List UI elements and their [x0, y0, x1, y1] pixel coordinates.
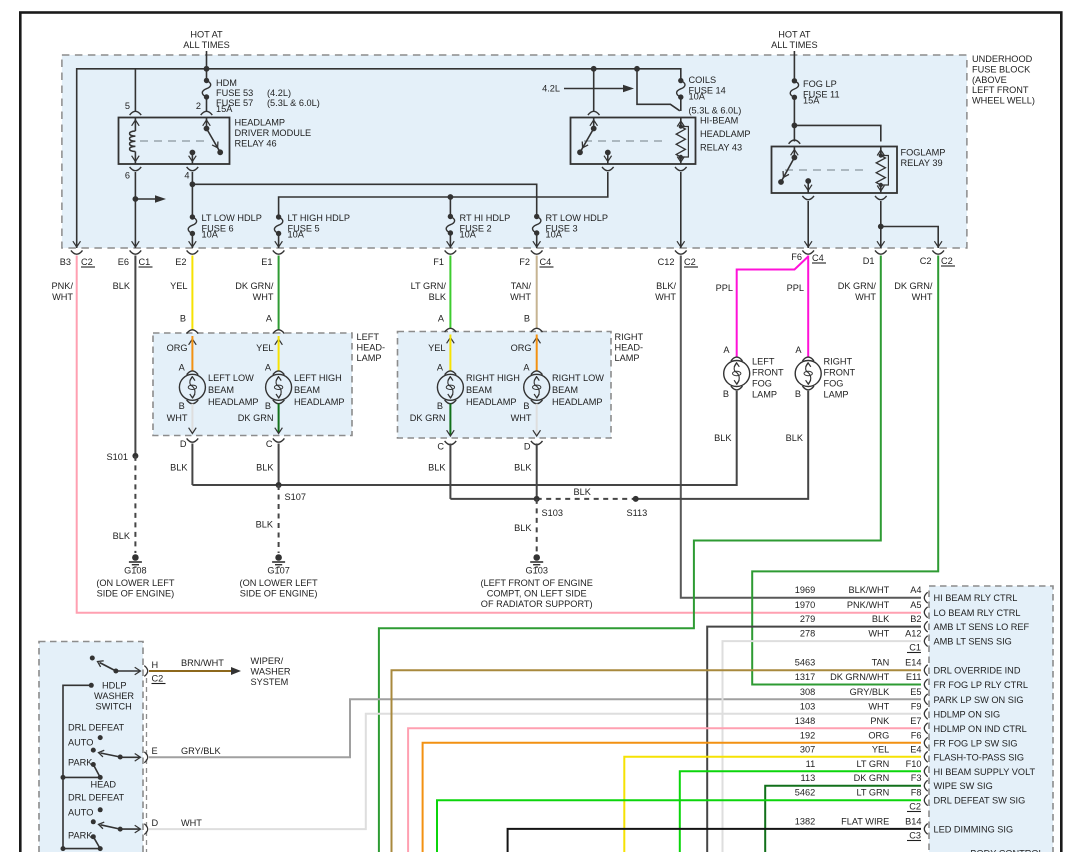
svg-text:PARK: PARK — [68, 831, 93, 841]
svg-text:E: E — [152, 746, 158, 756]
washer switch common rail — [89, 683, 94, 688]
svg-text:1348: 1348 — [795, 716, 815, 726]
svg-text:LT GRN/: LT GRN/ — [411, 281, 447, 291]
svg-text:307: 307 — [800, 744, 815, 754]
svg-text:113: 113 — [801, 773, 816, 783]
svg-text:RELAY 39: RELAY 39 — [901, 158, 943, 168]
svg-text:WHT: WHT — [511, 413, 532, 423]
svg-text:S107: S107 — [285, 492, 306, 502]
splice S107 — [276, 482, 282, 488]
svg-text:HDLP: HDLP — [102, 681, 127, 691]
wire BLK right low beam D to splice S103 — [536, 444, 538, 499]
svg-text:LAMP: LAMP — [824, 390, 849, 400]
relay 46 coil — [134, 118, 136, 132]
wire TAN circuit 5463 from below to BCM DRL OVERRIDE IND — [392, 670, 922, 852]
svg-text:HEAD-: HEAD- — [357, 342, 386, 352]
svg-text:DRL DEFEAT SW SIG: DRL DEFEAT SW SIG — [934, 796, 1026, 806]
svg-text:B: B — [180, 314, 186, 324]
svg-text:ALL TIMES: ALL TIMES — [183, 40, 229, 50]
svg-text:F6: F6 — [791, 252, 802, 262]
svg-text:FRONT: FRONT — [824, 368, 856, 378]
svg-text:HI BEAM RLY CTRL: HI BEAM RLY CTRL — [934, 593, 1018, 603]
svg-text:COILS: COILS — [689, 75, 717, 85]
svg-text:1970: 1970 — [795, 600, 815, 610]
connector into left headlamp B — [187, 330, 199, 334]
svg-text:PNK/: PNK/ — [52, 281, 74, 291]
svg-text:BEAM: BEAM — [208, 385, 234, 395]
svg-text:PPL: PPL — [787, 283, 804, 293]
svg-text:LED DIMMING SIG: LED DIMMING SIG — [934, 824, 1014, 834]
svg-text:F3: F3 — [911, 773, 922, 783]
svg-text:WHT: WHT — [855, 292, 876, 302]
wire fuse 11 to relay 39 — [793, 97, 795, 141]
svg-text:B: B — [723, 389, 729, 399]
svg-text:RELAY 43: RELAY 43 — [700, 143, 742, 153]
svg-text:H: H — [152, 660, 159, 670]
svg-text:1317: 1317 — [795, 672, 815, 682]
svg-text:C: C — [437, 442, 444, 452]
svg-text:BLK: BLK — [514, 523, 532, 533]
wire relay 46 pin 4 low-beam rail — [191, 172, 193, 217]
svg-text:SYSTEM: SYSTEM — [251, 677, 289, 687]
fuse block bottom connector sockets — [71, 250, 83, 254]
svg-text:BLK: BLK — [872, 614, 890, 624]
svg-text:LT GRN: LT GRN — [856, 759, 889, 769]
svg-text:E6: E6 — [118, 257, 129, 267]
wire LT GRN/BLK from F1 to right high beam — [449, 256, 451, 329]
svg-text:4.2L: 4.2L — [542, 84, 560, 94]
fuse LT HIGH HDLP FUSE 5 10A — [274, 217, 282, 234]
svg-text:BLK: BLK — [786, 433, 804, 443]
svg-text:HOT AT: HOT AT — [778, 30, 811, 40]
svg-text:F1: F1 — [433, 257, 444, 267]
svg-text:PARK LP SW ON SIG: PARK LP SW ON SIG — [934, 695, 1024, 705]
svg-text:GRY/BLK: GRY/BLK — [850, 687, 891, 697]
svg-text:HDLMP ON IND CTRL: HDLMP ON IND CTRL — [934, 724, 1027, 734]
svg-text:GRY/BLK: GRY/BLK — [181, 746, 222, 756]
svg-text:LEFT: LEFT — [357, 332, 380, 342]
svg-text:FR FOG LP SW SIG: FR FOG LP SW SIG — [934, 738, 1018, 748]
wire B+ feed into HDM fuse — [206, 51, 208, 81]
svg-text:YEL: YEL — [428, 343, 445, 353]
svg-text:C2: C2 — [909, 802, 921, 812]
svg-text:BODY CONTROL: BODY CONTROL — [970, 849, 1043, 852]
wire BLK ground bus to left fog lamp B — [192, 391, 736, 485]
svg-text:LEFT: LEFT — [752, 357, 775, 367]
relay 39 coil output connector — [875, 196, 887, 200]
right high beam headlamp bulb — [447, 338, 455, 344]
svg-text:5: 5 — [125, 101, 130, 111]
wire BLK from E6 to splice S101 — [134, 256, 136, 456]
wire BLK S101 to ground G108 — [134, 456, 136, 553]
hdlp washer switch blade H — [100, 663, 116, 672]
node junction B+ rail to relay43 switch drop — [591, 66, 597, 72]
svg-text:RIGHT LOW: RIGHT LOW — [552, 373, 604, 383]
svg-text:15A: 15A — [216, 104, 233, 114]
svg-text:RT HI HDLP: RT HI HDLP — [460, 213, 511, 223]
svg-text:308: 308 — [800, 687, 815, 697]
svg-text:F10: F10 — [906, 759, 922, 769]
wire drop to relay 43 switch pin — [593, 69, 595, 111]
svg-text:YEL: YEL — [170, 281, 187, 291]
svg-text:HEADLAMP: HEADLAMP — [700, 129, 751, 139]
switch section 1 blade E — [118, 755, 123, 760]
wire ORG circuit 192 from below to BCM FR FOG LP SW SIG — [423, 743, 921, 852]
svg-text:SIDE OF ENGINE): SIDE OF ENGINE) — [97, 589, 175, 599]
svg-text:DK GRN/: DK GRN/ — [894, 281, 933, 291]
svg-text:C3: C3 — [909, 831, 921, 841]
svg-text:A: A — [438, 314, 445, 324]
svg-text:ORG: ORG — [167, 343, 188, 353]
relay 43 switch — [593, 118, 595, 128]
svg-text:ALL TIMES: ALL TIMES — [771, 40, 817, 50]
svg-text:HI BEAM SUPPLY VOLT: HI BEAM SUPPLY VOLT — [934, 767, 1036, 777]
svg-text:11: 11 — [806, 759, 816, 769]
svg-text:WHT: WHT — [52, 292, 73, 302]
underhood fuse block — [62, 55, 967, 248]
connector into right headlamp B — [531, 328, 543, 332]
wire DK GRN/WHT from D1 down off page — [379, 256, 881, 852]
svg-text:(ON LOWER LEFT: (ON LOWER LEFT — [96, 578, 174, 588]
svg-text:RIGHT: RIGHT — [615, 332, 644, 342]
svg-text:103: 103 — [800, 701, 815, 711]
svg-text:B: B — [795, 389, 801, 399]
fuse RT LOW HDLP FUSE 3 10A — [533, 217, 541, 234]
svg-text:BLK/WHT: BLK/WHT — [848, 585, 889, 595]
svg-text:AMB LT SENS SIG: AMB LT SENS SIG — [934, 637, 1012, 647]
svg-text:WHT: WHT — [868, 629, 889, 639]
svg-text:DRL DEFEAT: DRL DEFEAT — [68, 793, 125, 803]
svg-text:DK GRN/: DK GRN/ — [838, 281, 877, 291]
hdlp washer switch wash contact — [90, 656, 95, 661]
svg-text:DK GRN: DK GRN — [410, 413, 446, 423]
wire WHT circuit 103 switch D to BCM HDLMP ON SIG — [149, 714, 921, 829]
svg-text:5462: 5462 — [795, 788, 815, 798]
svg-text:C2: C2 — [920, 256, 932, 266]
svg-text:D: D — [180, 439, 187, 449]
node junction high beam rail at fuse 2 — [448, 194, 454, 200]
svg-text:HDLMP ON SIG: HDLMP ON SIG — [934, 709, 1001, 719]
svg-text:E11: E11 — [906, 672, 922, 682]
svg-text:A: A — [523, 363, 530, 373]
svg-text:B: B — [523, 401, 529, 411]
svg-text:A4: A4 — [910, 585, 921, 595]
node junction coil return split — [878, 224, 884, 230]
wire relay 39 coil to D1 and C2 exits — [880, 201, 882, 248]
relay 39 switch — [793, 147, 795, 157]
svg-text:6: 6 — [125, 171, 130, 181]
wire BLK ground bus 2 solid left segment — [450, 498, 536, 500]
headlamp washer switch box — [39, 642, 143, 852]
svg-text:DK GRN/: DK GRN/ — [235, 281, 274, 291]
fuse RT HI HDLP FUSE 2 10A — [446, 217, 454, 234]
svg-text:RELAY 46: RELAY 46 — [235, 139, 277, 149]
svg-text:DRIVER MODULE: DRIVER MODULE — [235, 128, 312, 138]
svg-text:COMPT, ON LEFT SIDE: COMPT, ON LEFT SIDE — [487, 589, 587, 599]
svg-text:TAN: TAN — [872, 658, 890, 668]
svg-text:FUSE BLOCK: FUSE BLOCK — [972, 64, 1031, 74]
svg-text:LT GRN: LT GRN — [856, 788, 889, 798]
svg-text:BLK: BLK — [429, 292, 447, 302]
wire BLK/WHT circuit 1969 from C12 to BCM HI BEAM RLY CTRL — [681, 256, 921, 598]
svg-text:G103: G103 — [525, 566, 547, 576]
wire B+ rail across fuse block — [77, 69, 681, 248]
svg-text:FOG: FOG — [824, 379, 844, 389]
right low beam headlamp bulb — [533, 338, 541, 344]
svg-text:BLK: BLK — [514, 463, 532, 473]
fuse LT LOW HDLP FUSE 6 10A — [188, 217, 196, 234]
wire drop to relay 46 pin 5 — [134, 69, 136, 111]
wire FLAT WIRE circuit 1382 from below to BCM LED DIMMING SIG — [508, 829, 921, 852]
relay 39 switch pin connector — [789, 140, 801, 144]
svg-text:D1: D1 — [863, 256, 875, 266]
svg-text:LAMP: LAMP — [752, 390, 777, 400]
svg-text:B3: B3 — [60, 257, 71, 267]
wire BLK left high beam C to splice S107 — [278, 444, 280, 486]
svg-text:WIPE SW SIG: WIPE SW SIG — [934, 781, 993, 791]
wire relay 46 pin 6 to E6 exit — [134, 172, 136, 248]
svg-text:WASHER: WASHER — [251, 667, 291, 677]
relay 43 switch pin connector — [588, 111, 600, 115]
wire 4.2L branch to relay 43 coil — [637, 69, 680, 111]
svg-text:C2: C2 — [684, 257, 696, 267]
relay 46 pin 5 connector — [130, 111, 142, 115]
svg-text:5463: 5463 — [795, 658, 815, 668]
wire relay 43 output high-beam rail to fuses 5 and 2 — [279, 172, 608, 217]
svg-text:FLAT WIRE: FLAT WIRE — [841, 816, 889, 826]
svg-text:FOGLAMP: FOGLAMP — [901, 148, 946, 158]
relay 39 coil — [880, 147, 882, 156]
svg-text:PARK: PARK — [68, 758, 93, 768]
wire LT GRN circuit 11 from below to BCM HI BEAM SUPPLY VOLT — [680, 771, 921, 852]
svg-text:TAN/: TAN/ — [511, 281, 532, 291]
connector into left headlamp A — [273, 330, 285, 334]
svg-text:E7: E7 — [910, 716, 921, 726]
svg-text:RT LOW HDLP: RT LOW HDLP — [546, 213, 608, 223]
svg-text:LAMP: LAMP — [615, 353, 640, 363]
svg-text:WASHER: WASHER — [94, 691, 134, 701]
svg-text:E5: E5 — [910, 687, 921, 697]
svg-text:DRL DEFEAT: DRL DEFEAT — [68, 723, 125, 733]
node junction fog feed split — [792, 123, 798, 129]
svg-text:YEL: YEL — [256, 343, 273, 353]
svg-text:WHT: WHT — [510, 292, 531, 302]
svg-text:S113: S113 — [627, 508, 648, 518]
wire PPL from F6 to right front fog lamp — [807, 256, 809, 358]
svg-text:S101: S101 — [107, 452, 128, 462]
svg-text:YEL: YEL — [872, 744, 889, 754]
svg-text:FOG: FOG — [752, 379, 772, 389]
relay 43 coil — [680, 118, 682, 127]
svg-text:E1: E1 — [261, 257, 272, 267]
svg-text:A5: A5 — [910, 600, 921, 610]
svg-text:OF RADIATOR SUPPORT): OF RADIATOR SUPPORT) — [481, 599, 593, 609]
svg-text:B14: B14 — [905, 816, 921, 826]
svg-text:BLK: BLK — [170, 463, 188, 473]
switch section 1 HEAD contact — [93, 765, 100, 778]
left low beam headlamp bulb — [189, 339, 197, 345]
svg-text:BLK: BLK — [714, 433, 732, 443]
svg-text:E2: E2 — [175, 257, 186, 267]
svg-text:BLK: BLK — [256, 520, 274, 530]
svg-text:(ON LOWER LEFT: (ON LOWER LEFT — [240, 578, 318, 588]
wire BLK circuit 279 from below to BCM AMB LT SENS LO REF — [707, 627, 921, 852]
svg-text:LT HIGH HDLP: LT HIGH HDLP — [288, 213, 350, 223]
svg-text:BEAM: BEAM — [552, 385, 578, 395]
wire TAN/WHT from F2 to right low beam — [536, 256, 538, 329]
svg-text:HI-BEAM: HI-BEAM — [700, 116, 738, 126]
wire PNK/WHT circuit 1970 from B3 to BCM LO BEAM RLY CTRL — [77, 256, 921, 613]
svg-text:HEADLAMP: HEADLAMP — [294, 397, 345, 407]
wire relay 43 coil to C12 exit — [680, 172, 682, 248]
svg-text:FUSE 53: FUSE 53 — [216, 88, 253, 98]
svg-text:BLK/: BLK/ — [656, 281, 676, 291]
wire DK GRN circuit 113 from below to BCM WIPE SW SIG — [765, 786, 921, 852]
svg-text:10A: 10A — [689, 92, 706, 102]
svg-text:D: D — [524, 442, 531, 452]
svg-text:1969: 1969 — [795, 585, 815, 595]
svg-text:PPL: PPL — [716, 283, 733, 293]
relay 46 pin 4 connector — [187, 167, 199, 171]
svg-text:WHT: WHT — [912, 292, 933, 302]
svg-text:278: 278 — [800, 629, 815, 639]
fuse HDM FUSE 53 / FUSE 57 15A — [202, 81, 210, 98]
splice S103 — [534, 496, 540, 502]
svg-text:FR FOG LP RLY CTRL: FR FOG LP RLY CTRL — [934, 680, 1028, 690]
node junction B+ rail to 4.2L branch — [634, 66, 640, 72]
svg-text:G107: G107 — [267, 566, 289, 576]
relay 39 switch output connector — [802, 196, 814, 200]
svg-text:AUTO: AUTO — [68, 738, 93, 748]
wire BLK ground bus 2 dashed segment S103 to S113 — [537, 498, 636, 500]
wire PNK circuit 1348 from below to BCM HDLMP ON IND CTRL — [408, 728, 921, 852]
wire DK GRN/WHT from E1 to left high beam — [278, 256, 280, 330]
wire DK GRN/WHT circuit 1317 from C2 to BCM FR FOG LP RLY CTRL — [752, 256, 938, 685]
svg-text:(5.3L & 6.0L): (5.3L & 6.0L) — [689, 106, 742, 116]
svg-text:AMB LT SENS LO REF: AMB LT SENS LO REF — [934, 622, 1030, 632]
svg-text:WHT: WHT — [868, 701, 889, 711]
ground G107 — [275, 554, 282, 561]
ground G108 — [132, 554, 139, 561]
wire PPL branch to left front fog lamp — [737, 257, 809, 358]
svg-text:DK GRN: DK GRN — [238, 413, 274, 423]
splice S113 — [633, 496, 639, 502]
wire relay 39 output to F6 exit — [807, 201, 809, 248]
fuse block bottom connector arrows — [73, 241, 81, 247]
svg-text:DK GRN: DK GRN — [854, 773, 890, 783]
splice S101 — [132, 453, 138, 459]
svg-text:10A: 10A — [460, 230, 477, 240]
relay 46 pin 2 connector — [201, 111, 213, 115]
svg-text:(4.2L): (4.2L) — [267, 88, 291, 98]
wire BLK left low beam D to ground bus — [191, 444, 193, 486]
svg-text:192: 192 — [800, 730, 815, 740]
connector C2 boundary dashed line at washer switch — [146, 678, 148, 852]
svg-text:D: D — [152, 818, 159, 828]
wire HDM fuse to relay 46 pin 2 — [206, 97, 208, 111]
left high beam headlamp bulb — [275, 339, 283, 345]
svg-text:C2: C2 — [81, 257, 93, 267]
switch section 2 HEAD contact — [93, 837, 100, 849]
node junction low beam rail — [190, 181, 196, 187]
svg-text:10A: 10A — [288, 230, 305, 240]
svg-text:WHT: WHT — [253, 292, 274, 302]
svg-text:BLK: BLK — [256, 463, 274, 473]
svg-text:WHT: WHT — [655, 292, 676, 302]
svg-text:LEFT HIGH: LEFT HIGH — [294, 373, 342, 383]
svg-text:SIDE OF ENGINE): SIDE OF ENGINE) — [240, 589, 318, 599]
svg-text:WHT: WHT — [167, 413, 188, 423]
svg-text:FRONT: FRONT — [752, 368, 784, 378]
node junction on B+ rail at x206 — [204, 66, 210, 72]
svg-text:C2: C2 — [152, 674, 164, 684]
svg-text:10A: 10A — [202, 230, 219, 240]
svg-text:BEAM: BEAM — [294, 385, 320, 395]
wire BLK right high beam C to ground bus 2 — [449, 444, 451, 499]
svg-text:2: 2 — [196, 101, 201, 111]
node junction with continuation arrow — [133, 196, 139, 202]
svg-text:BLK: BLK — [113, 281, 131, 291]
relay U39 FOGLAMP RELAY 39 — [772, 147, 898, 194]
svg-text:E14: E14 — [905, 658, 921, 668]
svg-text:DK GRN/WHT: DK GRN/WHT — [830, 672, 890, 682]
svg-text:1382: 1382 — [795, 816, 815, 826]
svg-text:(5.3L & 6.0L): (5.3L & 6.0L) — [267, 98, 320, 108]
fuse COILS FUSE 14 10A — [677, 81, 685, 98]
svg-text:B: B — [524, 314, 530, 324]
right headlamp assembly box — [398, 332, 612, 439]
svg-text:B2: B2 — [910, 614, 921, 624]
svg-text:HDM: HDM — [216, 78, 237, 88]
ground G103 — [533, 554, 540, 561]
svg-text:B: B — [265, 401, 271, 411]
svg-text:C4: C4 — [812, 253, 824, 263]
svg-text:F8: F8 — [911, 788, 922, 798]
svg-text:A: A — [265, 363, 272, 373]
svg-text:15A: 15A — [803, 96, 820, 106]
wire BLK S107 to ground G107 — [278, 485, 280, 553]
wire YEL circuit 307 from below to BCM FLASH-TO-PASS SIG — [624, 757, 921, 852]
svg-text:C12: C12 — [658, 257, 675, 267]
relay 46 switch — [206, 118, 208, 128]
relay 46 pin 6 connector — [130, 167, 142, 171]
svg-text:BLK: BLK — [574, 487, 592, 497]
svg-text:HEAD: HEAD — [91, 780, 117, 790]
svg-text:SWITCH: SWITCH — [96, 702, 132, 712]
wire GRY/BLK circuit 308 switch E to BCM PARK LP SW ON SIG — [149, 699, 921, 757]
wire fuse 14 to relay 43 coil pin — [680, 97, 682, 111]
wire LT GRN circuit 5462 from below to BCM DRL DEFEAT SW SIG — [437, 800, 921, 852]
wire low beam rail to fuse 3 — [192, 184, 536, 216]
svg-text:BRN/WHT: BRN/WHT — [181, 658, 224, 668]
relay U43 HI-BEAM HEADLAMP RELAY 43 — [571, 118, 696, 165]
svg-text:4: 4 — [184, 171, 189, 181]
wire BLK ground bus 2 to right fog lamp B — [636, 391, 809, 499]
left headlamp assembly box — [153, 333, 352, 436]
body control module box — [929, 586, 1053, 852]
svg-text:WHT: WHT — [181, 818, 202, 828]
svg-text:S103: S103 — [542, 508, 563, 518]
svg-text:HEADLAMP: HEADLAMP — [235, 118, 286, 128]
svg-text:WIPER/: WIPER/ — [251, 656, 284, 666]
svg-text:279: 279 — [800, 614, 815, 624]
wire B+ feed into fog fuse — [793, 51, 795, 81]
svg-text:(LEFT FRONT OF ENGINE: (LEFT FRONT OF ENGINE — [480, 578, 592, 588]
svg-text:HEADLAMP: HEADLAMP — [466, 397, 517, 407]
switch section 2 blade D — [118, 827, 123, 832]
svg-text:RIGHT: RIGHT — [824, 357, 853, 367]
relay 43 coil output connector — [675, 167, 687, 171]
